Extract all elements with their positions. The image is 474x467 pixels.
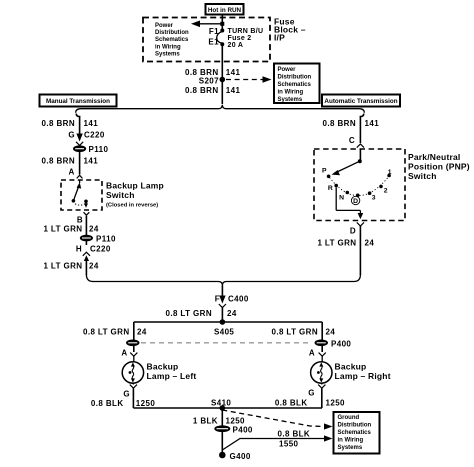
svg-text:1 LT GRN: 1 LT GRN [43, 262, 82, 271]
terminal B of backup lamp switch [77, 212, 89, 224]
svg-text:Manual Transmission: Manual Transmission [46, 98, 110, 105]
svg-text:141: 141 [226, 68, 241, 77]
terminal G of left backup lamp [123, 383, 137, 398]
svg-text:Schematics: Schematics [338, 430, 372, 436]
terminal G of right backup lamp [308, 383, 325, 397]
svg-text:0.8 LT GRN: 0.8 LT GRN [83, 328, 130, 337]
svg-text:P400: P400 [233, 426, 253, 435]
wire: top option brace [76, 105, 365, 113]
svg-text:Distribution: Distribution [338, 423, 372, 429]
svg-text:0.8 BRN: 0.8 BRN [185, 86, 218, 95]
svg-text:1: 1 [388, 169, 392, 176]
label: 0.8 LT GRN 24 (right lamp) [271, 328, 335, 337]
svg-text:1 LT GRN: 1 LT GRN [43, 225, 82, 234]
svg-text:141: 141 [84, 157, 99, 166]
svg-text:24: 24 [89, 262, 99, 271]
label: 0.8 BLK 1250 (left) [91, 399, 155, 408]
svg-text:P400: P400 [331, 340, 351, 349]
terminal C of PNP switch [349, 136, 364, 148]
fuse block I/P dashed box [143, 18, 270, 62]
ground G400 [219, 452, 251, 461]
wire: C400 to S405 [221, 308, 223, 322]
label: Park/Neutral Position (PNP) Switch [408, 152, 470, 181]
PNP positions arc dots P R N D 3 2 1 [327, 174, 391, 197]
svg-text:A: A [69, 168, 75, 177]
connector P400 (right lamp pass-through) [315, 340, 352, 349]
wire: S405 to right lamp drop [321, 322, 323, 340]
svg-text:C220: C220 [90, 245, 111, 254]
connector P110 (pass-through, upper) [73, 145, 108, 154]
svg-text:1550: 1550 [279, 440, 299, 449]
connector P400 (ground pass-through) [214, 425, 253, 434]
svg-text:in Wiring: in Wiring [278, 90, 304, 96]
svg-text:0.8 BLK: 0.8 BLK [278, 430, 311, 439]
svg-text:0.8 BRN: 0.8 BRN [42, 119, 75, 128]
wire: P400 to G400 [221, 432, 223, 456]
svg-text:24: 24 [137, 328, 147, 337]
svg-text:P: P [322, 167, 327, 174]
svg-text:Hot in RUN: Hot in RUN [208, 7, 242, 14]
terminal A of right backup lamp [309, 346, 326, 358]
svg-text:Systems: Systems [338, 445, 363, 451]
svg-text:G: G [123, 390, 130, 399]
svg-text:0.8 BLK: 0.8 BLK [91, 399, 124, 408]
wire: switch B to P110 lower [85, 216, 87, 235]
box: Ground Distribution Schematics in Wiring Systems [334, 412, 380, 454]
label: 1 BLK 1250 [193, 417, 245, 426]
wire: PNP to bottom brace (right) [359, 226, 361, 275]
svg-text:141: 141 [84, 119, 99, 128]
svg-text:Schematics: Schematics [278, 82, 312, 88]
svg-text:Distribution: Distribution [278, 75, 312, 81]
label: 0.8 LT GRN 24 (above S405) [165, 309, 236, 318]
connector P400 (left lamp pass-through) [126, 340, 140, 347]
wire: S405 distribution bus [134, 321, 322, 323]
label: 0.8 LT GRN 24 (left lamp) [83, 328, 147, 337]
svg-text:1250: 1250 [326, 399, 346, 408]
node: Hot in RUN feed box [206, 4, 244, 15]
box: Automatic Transmission [322, 95, 400, 107]
svg-text:24: 24 [89, 225, 99, 234]
svg-text:Schematics: Schematics [155, 37, 189, 43]
dashed arrow: S207 to Power Distribution box [226, 76, 272, 83]
wire: S410 ground bus [133, 407, 322, 409]
wire: right lamp to S410 bus [321, 388, 323, 408]
svg-text:3: 3 [372, 195, 376, 202]
splice S207 [199, 77, 225, 86]
svg-text:0.8 LT GRN: 0.8 LT GRN [271, 328, 318, 337]
svg-text:in Wiring: in Wiring [338, 438, 364, 444]
svg-text:24: 24 [227, 309, 237, 318]
lamp: Backup Lamp - Right [311, 356, 391, 383]
lamp: Backup Lamp - Left [122, 356, 196, 383]
label: 0.8 BRN 141 (left branch) [42, 119, 99, 128]
note: Power Distribution Schematics in Wiring Systems (inside fuse block box) [155, 23, 189, 58]
backup lamp switch dashed box [61, 180, 102, 210]
svg-text:1250: 1250 [226, 417, 246, 426]
svg-text:H: H [76, 245, 82, 254]
fuse F1/E1 TURN B/U Fuse 2 20 A [208, 27, 263, 49]
svg-text:24: 24 [365, 239, 375, 248]
svg-text:Systems: Systems [155, 52, 180, 58]
svg-text:Backup Lamp: Backup Lamp [106, 180, 164, 190]
svg-text:20 A: 20 A [228, 42, 244, 49]
svg-text:S207: S207 [199, 77, 219, 86]
terminal D of PNP switch [350, 222, 364, 235]
wire: drop to PNP switch [359, 117, 361, 143]
label: Backup Lamp Switch (Closed in reverse) [106, 180, 164, 208]
wire: fuse to S207 to top brace [221, 44, 223, 104]
wire: 0.8 BLK 1550 branch to Ground Distribution box [222, 430, 332, 451]
svg-text:0.8 LT GRN: 0.8 LT GRN [165, 309, 212, 318]
label: 0.8 BRN 141 (below S207) [185, 86, 240, 95]
svg-text:Lamp – Right: Lamp – Right [335, 371, 391, 381]
svg-text:(Closed in reverse): (Closed in reverse) [106, 202, 158, 208]
wire: bottom merge brace [86, 275, 360, 286]
svg-text:0.8 BRN: 0.8 BRN [42, 157, 75, 166]
svg-text:Backup: Backup [335, 361, 367, 371]
label: 0.8 BRN 141 (right branch) [323, 119, 380, 128]
svg-text:P110: P110 [89, 145, 109, 154]
svg-text:1250: 1250 [136, 399, 156, 408]
label: 1 LT GRN 24 (left bottom) [43, 262, 98, 271]
svg-text:Power: Power [278, 67, 297, 73]
svg-text:Park/Neutral: Park/Neutral [408, 152, 460, 162]
svg-text:R: R [328, 185, 333, 192]
PNP switch arm and pivot [332, 149, 362, 175]
wire: right branch hook and drop [360, 114, 363, 117]
svg-text:F: F [215, 295, 220, 304]
svg-text:in Wiring: in Wiring [155, 44, 181, 50]
svg-text:B: B [77, 216, 83, 225]
svg-text:Lamp – Left: Lamp – Left [147, 371, 197, 381]
svg-text:I/P: I/P [274, 33, 285, 43]
svg-text:Switch: Switch [106, 190, 135, 200]
wire: P110 to backup lamp switch [79, 152, 81, 175]
wire: brace to C400 [221, 286, 223, 298]
label: 0.8 BRN 141 (below P110) [42, 157, 99, 166]
label: 1 LT GRN 24 (below B) [43, 225, 98, 234]
backup lamp switch contacts and arm [72, 180, 88, 208]
wire: arrow to power distribution (left) [191, 21, 224, 28]
svg-text:A: A [309, 349, 315, 358]
label: 1 LT GRN 24 (right branch) [317, 239, 374, 248]
svg-text:Ground: Ground [338, 415, 360, 421]
wire: C220 to bottom brace (left) [85, 260, 87, 275]
svg-text:141: 141 [365, 119, 380, 128]
connector terminal H of C220 (arrow up) [76, 241, 111, 261]
svg-text:Automatic Transmission: Automatic Transmission [324, 98, 397, 105]
wire: left branch hook and drop [76, 114, 79, 117]
svg-text:1 LT GRN: 1 LT GRN [317, 239, 356, 248]
svg-text:G: G [68, 131, 75, 140]
dashed arrow: S410 to Ground Distribution box [222, 410, 332, 430]
splice S405 [214, 319, 234, 336]
box: Power Distribution Schematics in Wiring Systems [274, 64, 320, 104]
svg-text:0.8 BLK: 0.8 BLK [275, 399, 308, 408]
svg-text:G: G [308, 389, 315, 398]
svg-text:G400: G400 [230, 452, 251, 461]
wire: S405 to left lamp drop [133, 322, 135, 340]
svg-text:2: 2 [384, 188, 388, 195]
svg-text:D: D [350, 227, 356, 236]
label: 0.8 BRN 141 (above S207) [185, 68, 240, 77]
svg-text:TURN B/U: TURN B/U [228, 28, 264, 35]
terminal A of backup lamp switch [69, 168, 83, 179]
wire: left lamp to S410 bus [132, 388, 134, 408]
connector terminal F of C400 (arrow down) [215, 295, 249, 308]
svg-text:24: 24 [326, 328, 336, 337]
svg-text:141: 141 [226, 86, 241, 95]
svg-text:C220: C220 [84, 131, 105, 140]
svg-text:P110: P110 [96, 235, 116, 244]
svg-text:Fuse 2: Fuse 2 [228, 35, 252, 42]
PNP position labels [322, 167, 392, 205]
splice S410 [211, 399, 231, 411]
svg-text:Systems: Systems [278, 97, 303, 103]
svg-text:C400: C400 [228, 295, 249, 304]
wire: PNP R contact to exit [336, 188, 363, 220]
svg-text:N: N [339, 195, 344, 202]
PNP switch dashed box [314, 149, 405, 221]
connector terminal G of C220 (arrow down) [68, 117, 105, 146]
svg-text:Backup: Backup [147, 361, 179, 371]
dashed connector interconnect line (gray) [141, 342, 312, 344]
svg-text:Switch: Switch [408, 171, 437, 181]
svg-text:0.8 BRN: 0.8 BRN [323, 119, 356, 128]
svg-text:1 BLK: 1 BLK [193, 417, 218, 426]
label: Fuse Block - I/P [274, 17, 306, 43]
terminal A of left backup lamp [121, 346, 137, 358]
wire: S410 down to P400 [221, 408, 223, 426]
svg-text:Position (PNP): Position (PNP) [408, 161, 470, 171]
svg-text:Distribution: Distribution [155, 30, 189, 36]
wire: Hot in RUN to fuse [221, 15, 223, 31]
svg-text:C: C [349, 136, 355, 145]
label: 0.8 BLK 1250 (right) [275, 399, 345, 408]
svg-text:Power: Power [155, 23, 174, 29]
svg-text:S405: S405 [214, 328, 234, 337]
connector P110 (pass-through, lower) [80, 235, 116, 244]
svg-text:A: A [121, 349, 127, 358]
box: Manual Transmission [40, 95, 117, 107]
